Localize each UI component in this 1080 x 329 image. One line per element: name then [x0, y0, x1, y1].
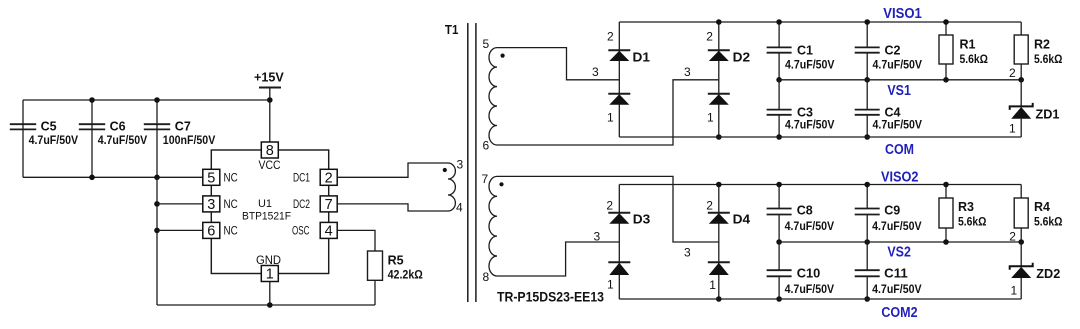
svg-text:C9: C9: [884, 203, 900, 218]
svg-text:4.7uF/50V: 4.7uF/50V: [872, 282, 922, 296]
wire +15V to VCC: [269, 88, 271, 143]
wire GND pin down: [269, 282, 271, 306]
svg-text:C7: C7: [175, 119, 191, 134]
pin 1 GND: [261, 266, 278, 282]
capacitor C11: [866, 242, 868, 270]
junction D2 COM: [716, 134, 722, 140]
svg-text:4.7uF/50V: 4.7uF/50V: [785, 219, 835, 233]
svg-text:TR-P15DS23-EE13: TR-P15DS23-EE13: [497, 289, 604, 305]
svg-text:OSC: OSC: [292, 224, 310, 238]
junction C1 VS1: [776, 77, 782, 83]
svg-text:D4: D4: [733, 212, 751, 227]
junction GND bottom: [267, 302, 273, 308]
junction C10 bottom: [776, 296, 782, 302]
junction C2 VS1: [864, 77, 870, 83]
wire bottom rail left: [23, 176, 203, 178]
resistor R3: [945, 185, 947, 199]
junction C6 bottom: [89, 175, 95, 181]
wire winding6 to D2 mid: [497, 80, 719, 145]
junction C3 bottom: [776, 134, 782, 140]
svg-text:2: 2: [706, 30, 713, 44]
secondary 2 phase dot: [499, 182, 503, 186]
svg-text:2: 2: [706, 199, 713, 213]
wire R5 to bottom: [374, 280, 376, 305]
svg-text:5.6kΩ: 5.6kΩ: [1034, 52, 1063, 66]
svg-text:+15V: +15V: [254, 71, 284, 85]
pin 6 NC: [203, 222, 220, 238]
svg-text:5.6kΩ: 5.6kΩ: [1034, 215, 1063, 229]
svg-text:8: 8: [266, 143, 274, 159]
capacitor C1: [778, 22, 780, 47]
capacitor C5: [22, 100, 24, 177]
net COM rail: [619, 136, 1021, 138]
svg-text:6: 6: [207, 224, 215, 240]
svg-text:3: 3: [594, 230, 601, 244]
svg-text:NC: NC: [224, 224, 238, 238]
svg-text:2: 2: [607, 30, 614, 44]
svg-text:4.7uF/50V: 4.7uF/50V: [29, 133, 79, 147]
junction D4 VISO2: [716, 182, 722, 188]
svg-text:3: 3: [457, 158, 464, 172]
svg-text:NC: NC: [224, 171, 238, 185]
svg-text:NC: NC: [224, 197, 238, 211]
svg-text:DC1: DC1: [293, 171, 310, 185]
capacitor C9: [866, 185, 868, 209]
wire bottom return: [157, 304, 375, 306]
svg-text:COM2: COM2: [881, 305, 917, 321]
svg-text:R5: R5: [388, 252, 404, 267]
net VS1 rail: [779, 79, 1021, 81]
secondary winding 1: [489, 48, 497, 145]
capacitor C6: [91, 100, 93, 177]
svg-text:VS1: VS1: [887, 83, 911, 99]
svg-text:C6: C6: [110, 119, 126, 134]
junction D2 VISO1: [716, 19, 722, 25]
junction C4 bottom: [864, 134, 870, 140]
svg-text:4.7uF/50V: 4.7uF/50V: [873, 118, 923, 132]
svg-text:D3: D3: [633, 212, 651, 227]
pin 3 NC: [203, 196, 220, 212]
svg-text:ZD1: ZD1: [1036, 106, 1060, 121]
net VS2 rail: [779, 241, 1021, 243]
svg-text:1: 1: [607, 110, 614, 124]
resistor R5: [368, 251, 383, 280]
wire pin3 stub: [157, 203, 203, 205]
svg-text:C8: C8: [797, 203, 813, 218]
junction R1 VS1: [943, 77, 949, 83]
svg-text:D2: D2: [733, 49, 751, 64]
wire pin6 stub: [157, 229, 203, 231]
svg-text:5: 5: [207, 171, 215, 187]
net VISO1 rail: [619, 21, 1021, 23]
capacitor C10: [778, 242, 780, 270]
svg-text:4.7uF/50V: 4.7uF/50V: [785, 57, 835, 71]
primary winding: [448, 163, 455, 211]
pin 2 DC1: [320, 169, 337, 185]
junction C11 bottom: [864, 296, 870, 302]
svg-text:1: 1: [1009, 122, 1016, 136]
net COM2 rail: [619, 298, 1021, 300]
svg-text:T1: T1: [445, 22, 459, 37]
svg-text:8: 8: [483, 270, 490, 284]
svg-text:4.7uF/50V: 4.7uF/50V: [785, 282, 835, 296]
svg-text:1: 1: [707, 110, 714, 124]
svg-text:D1: D1: [633, 49, 651, 64]
svg-text:DC2: DC2: [293, 197, 310, 211]
svg-text:4: 4: [325, 224, 333, 240]
svg-text:1: 1: [266, 267, 274, 283]
svg-text:VS2: VS2: [887, 245, 911, 261]
wire winding5 to D1 mid: [497, 48, 619, 80]
capacitor C3: [778, 80, 780, 110]
svg-text:3: 3: [684, 65, 691, 79]
pin 4 OSC: [320, 222, 337, 238]
svg-text:C2: C2: [885, 42, 901, 57]
svg-text:4.7uF/50V: 4.7uF/50V: [872, 219, 922, 233]
diode D2: [718, 22, 720, 137]
svg-text:C11: C11: [884, 266, 908, 281]
svg-text:3: 3: [592, 65, 599, 79]
diode D4: [718, 185, 720, 300]
svg-text:5: 5: [483, 37, 490, 51]
resistor R1: [945, 22, 947, 35]
junction R3 top: [943, 182, 949, 188]
svg-text:VCC: VCC: [259, 158, 281, 172]
svg-text:VISO2: VISO2: [881, 169, 919, 185]
svg-text:R1: R1: [960, 37, 976, 52]
op-amp U1 body: [211, 150, 328, 274]
junction C8 top: [776, 182, 782, 188]
zener ZD2: [1020, 242, 1022, 266]
svg-text:R3: R3: [958, 199, 974, 214]
svg-text:2: 2: [606, 199, 613, 213]
svg-text:3: 3: [684, 246, 691, 260]
pin 8 VCC: [261, 142, 278, 158]
svg-text:VISO1: VISO1: [883, 6, 922, 22]
svg-text:C5: C5: [41, 119, 57, 134]
svg-text:2: 2: [1009, 230, 1016, 244]
junction D4 COM2: [716, 296, 722, 302]
svg-text:1: 1: [709, 278, 716, 292]
svg-text:C10: C10: [797, 266, 821, 281]
zener ZD1: [1020, 80, 1022, 107]
junction R2 VS1: [1018, 77, 1024, 83]
svg-text:1: 1: [1011, 284, 1018, 298]
primary phase dot: [443, 168, 447, 172]
wire winding8 to D3 mid: [497, 242, 619, 276]
capacitor C2: [866, 22, 868, 47]
svg-text:5.6kΩ: 5.6kΩ: [958, 215, 987, 229]
junction C8 VS2: [776, 239, 782, 245]
capacitor C7: [156, 100, 158, 177]
svg-text:2: 2: [325, 171, 333, 187]
svg-text:4: 4: [456, 201, 463, 215]
svg-text:C1: C1: [797, 42, 813, 57]
capacitor C8: [778, 185, 780, 209]
junction C9 VS2: [864, 239, 870, 245]
svg-text:42.2kΩ: 42.2kΩ: [388, 268, 424, 282]
transformer core: [467, 23, 469, 302]
svg-text:7: 7: [325, 197, 333, 213]
svg-text:1: 1: [607, 277, 614, 291]
secondary winding 2: [489, 176, 497, 276]
svg-text:3: 3: [207, 197, 215, 213]
junction pin6 stub: [154, 228, 160, 234]
net VISO2 rail: [619, 184, 1021, 186]
junction pin3 stub: [154, 201, 160, 207]
junction C2 top: [864, 19, 870, 25]
resistor R4: [1020, 185, 1022, 199]
svg-text:2: 2: [1009, 66, 1016, 80]
svg-text:5.6kΩ: 5.6kΩ: [960, 52, 989, 66]
diode D1: [618, 22, 620, 137]
wire left bus vertical: [156, 177, 158, 305]
svg-text:R4: R4: [1034, 199, 1051, 214]
svg-text:100nF/50V: 100nF/50V: [163, 133, 216, 147]
wire DC2 to primary: [337, 204, 448, 211]
svg-text:ZD2: ZD2: [1036, 266, 1060, 281]
wire DC1 to primary: [337, 163, 448, 177]
capacitor C4: [866, 80, 868, 110]
svg-text:GND: GND: [256, 253, 281, 267]
svg-text:U1: U1: [258, 198, 272, 210]
junction R4 VS2: [1018, 239, 1024, 245]
junction +15V rail: [267, 97, 273, 103]
wire top rail left: [23, 99, 270, 101]
svg-text:4.7uF/50V: 4.7uF/50V: [785, 118, 835, 132]
wire winding7 to D4 mid: [497, 176, 719, 242]
junction C6 top: [89, 97, 95, 103]
secondary 1 phase dot: [501, 54, 505, 58]
junction R3 VS2: [943, 239, 949, 245]
svg-text:6: 6: [483, 138, 490, 152]
svg-text:4.7uF/50V: 4.7uF/50V: [98, 133, 148, 147]
wire OSC to R5: [337, 230, 375, 251]
svg-text:4.7uF/50V: 4.7uF/50V: [873, 57, 923, 71]
pin 5 NC: [203, 169, 220, 185]
diode D3: [618, 185, 620, 300]
junction C1 top: [776, 19, 782, 25]
pin 7 DC2: [320, 196, 337, 212]
svg-text:COM: COM: [885, 142, 914, 158]
junction C7 bottom: [154, 175, 160, 181]
svg-text:BTP1521F: BTP1521F: [242, 211, 291, 223]
svg-text:R2: R2: [1034, 37, 1050, 52]
resistor R2: [1020, 22, 1022, 35]
svg-text:7: 7: [482, 172, 489, 186]
junction C9 top: [864, 182, 870, 188]
junction C7 top: [154, 97, 160, 103]
junction R1 top: [943, 19, 949, 25]
